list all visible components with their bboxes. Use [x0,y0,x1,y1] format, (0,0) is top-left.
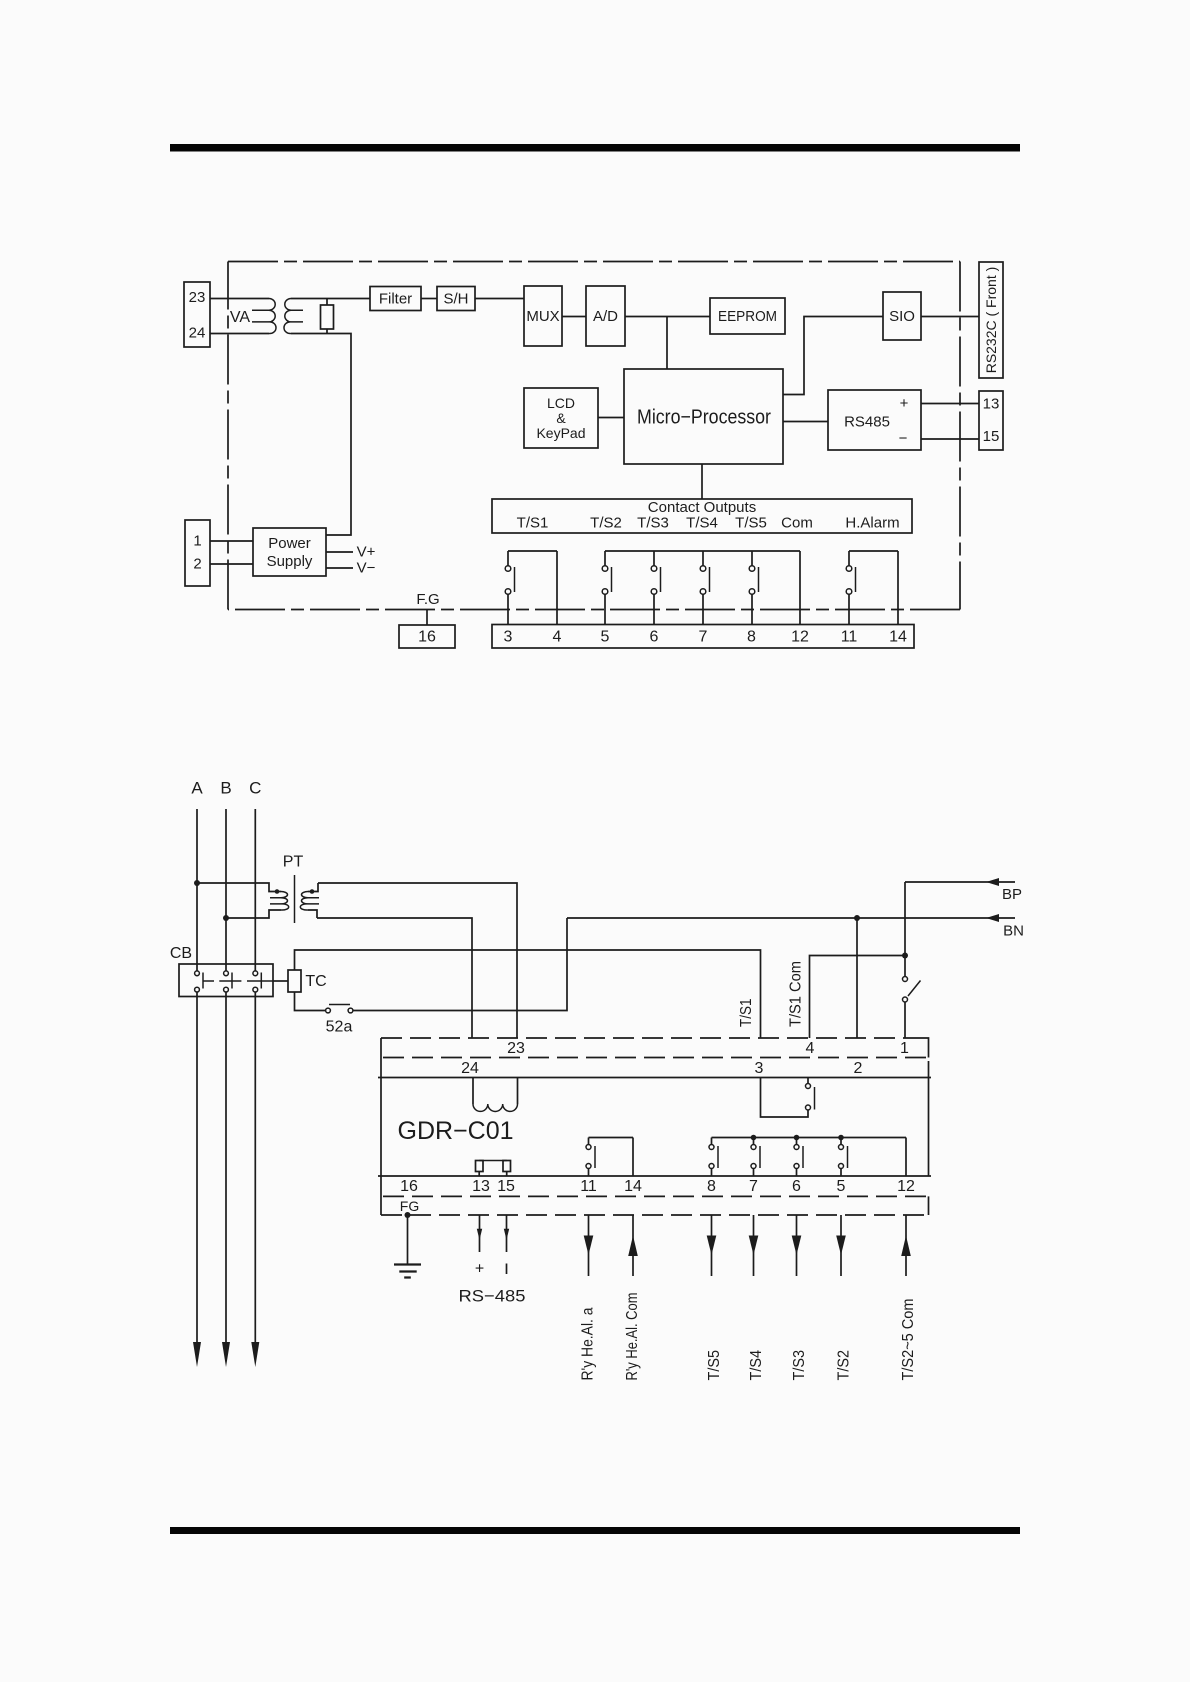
wire S/H to MUX [475,298,524,300]
svg-text:BP: BP [1002,886,1022,903]
wire TC top to terminal 3 (T/S1) [295,950,761,1038]
transformer VA primary winding [269,299,276,334]
svg-text:4: 4 [553,629,562,646]
terminal pin 16 [399,625,455,648]
GDR-C01 box right edge [928,1061,930,1215]
internal T/S5 contact [709,1138,718,1177]
phase line B [222,809,230,1367]
svg-text:SIO: SIO [889,308,915,325]
svg-text:T/S3: T/S3 [637,515,669,532]
GDR-C01 box second dashed line [383,1057,929,1059]
auxiliary contact 52a [326,1005,353,1036]
svg-text:A: A [191,779,203,798]
lead pin 5 T/S2 [836,1215,853,1381]
wire TC bottom to 52a [295,992,326,1011]
svg-text:3: 3 [755,1060,764,1077]
wire pin23 to VA primary [210,298,269,300]
svg-text:7: 7 [749,1178,758,1195]
internal T/S1 output contact [761,1078,815,1118]
GDR-C01 box lower solid line [378,1175,931,1177]
svg-text:8: 8 [707,1178,716,1195]
wire BN to terminal 2 [856,918,858,1038]
wire VA secondary bottom down to power supply [291,334,351,536]
GDR-C01 box upper solid line [378,1077,931,1079]
relay T/S5 contact [749,551,758,625]
svg-text:14: 14 [624,1178,642,1195]
wire RS485 plus to pin13 [921,403,979,405]
svg-text:VA: VA [230,309,250,326]
svg-text:RS−485: RS−485 [459,1287,526,1306]
RS485 plus lead pin 13 [475,1215,484,1278]
internal T/S2..T/S5 relay common bar [712,1138,907,1177]
Micro-Processor block [624,369,783,464]
wire PT secondary top to terminal 23 [318,883,517,1038]
svg-text:2: 2 [193,556,201,573]
RS485 block [828,390,921,450]
burden resistor [321,299,334,334]
breaker CB pole C [253,971,261,992]
svg-text:V−: V− [357,560,376,577]
lead pin 6 T/S3 [791,1215,808,1381]
internal H.Alarm relay contact [586,1138,633,1177]
svg-text:+: + [900,395,909,412]
enclosure dashed border left edge [227,262,229,610]
control switch on BP feed [903,882,921,1038]
terminal block pins 13/15 [979,391,1003,450]
svg-text:H.Alarm: H.Alarm [845,515,899,532]
svg-text:BN: BN [1003,923,1024,940]
V+ output stub [326,544,376,561]
svg-text:T/S4: T/S4 [748,1350,765,1381]
svg-text:13: 13 [983,396,1000,413]
svg-text:Power: Power [268,535,311,552]
breaker CB box [179,964,273,997]
GDR-C01 box outer dashed top edge [381,1037,918,1039]
wire Micro-Processor to RS485 [783,421,828,423]
svg-text:2: 2 [854,1060,863,1077]
internal VA input winding [473,1078,518,1112]
breaker CB crossbar [203,980,273,982]
svg-text:Contact Outputs: Contact Outputs [648,499,756,516]
GDR-C01 box top right corner [918,1038,929,1058]
bottom page rule [170,1527,1020,1534]
junction BN to terminal 2 [854,915,860,921]
S/H block [437,287,475,311]
wire F.G to pin16 [426,610,428,626]
wire T/S1 Com terminal 4 [810,956,906,1039]
svg-text:11: 11 [580,1178,597,1195]
svg-text:Micro−Processor: Micro−Processor [637,407,771,429]
GDR-C01 box lower dashed line [383,1195,929,1197]
svg-text:16: 16 [418,629,436,646]
wire CB to TC [273,980,288,982]
svg-text:T/S2~5 Com: T/S2~5 Com [900,1299,917,1381]
svg-text:A/D: A/D [593,308,618,325]
svg-text:7: 7 [699,629,708,646]
V- output stub [326,560,376,577]
svg-text:F.G: F.G [416,591,439,608]
junction T/S3 bar [794,1135,800,1141]
relay T/S2 contact [602,551,611,625]
relay group T/S2..T/S5 common bar [605,551,800,625]
relay T/S4 contact [700,551,709,625]
top page rule [170,144,1020,152]
svg-text:24: 24 [189,325,206,342]
svg-text:15: 15 [983,428,1000,445]
svg-text:13: 13 [472,1178,490,1195]
svg-text:6: 6 [792,1178,801,1195]
junction phase A to PT [194,880,200,886]
terminal block pins 1/2 [185,520,210,586]
wire PT secondary bottom to terminal 24 [317,918,472,1038]
svg-text:8: 8 [747,629,756,646]
svg-text:T/S3: T/S3 [791,1350,808,1381]
enclosure dashed border right edge [959,262,961,610]
breaker CB pole A [195,971,203,992]
junction T/S2 bar [838,1135,844,1141]
RS232C front connector [979,262,1003,378]
internal T/S2 contact [839,1138,848,1177]
lead pin 12 T/S2~5 Com [900,1215,917,1381]
svg-text:R'y He.Al. Com: R'y He.Al. Com [624,1293,641,1381]
RS-485 terminating resistors pins 13/15 [476,1161,511,1177]
svg-text:15: 15 [497,1178,515,1195]
phase line A [193,809,201,1367]
svg-text:T/S1: T/S1 [738,998,755,1027]
Filter block [370,287,421,311]
svg-text:C: C [249,779,261,798]
wire MUX to A/D [562,316,586,318]
svg-text:EEPROM: EEPROM [718,308,777,325]
ground symbol [394,1215,421,1278]
svg-text:S/H: S/H [443,291,468,308]
svg-text:1: 1 [900,1040,909,1057]
enclosure dashed border bottom edge [228,609,960,611]
svg-text:1: 1 [193,533,201,550]
svg-text:52a: 52a [326,1019,353,1036]
svg-text:T/S2: T/S2 [836,1350,853,1381]
svg-text:14: 14 [889,629,907,646]
svg-text:GDR−C01: GDR−C01 [398,1117,514,1145]
internal T/S3 contact [794,1138,803,1177]
svg-text:LCD: LCD [547,395,575,411]
svg-text:12: 12 [897,1178,915,1195]
svg-text:16: 16 [400,1178,418,1195]
svg-text:Supply: Supply [267,553,313,570]
svg-text:6: 6 [650,629,659,646]
svg-text:T/S4: T/S4 [686,515,718,532]
wire Micro-Processor to Contact Outputs [701,464,703,499]
svg-text:T/S1: T/S1 [517,515,549,532]
svg-text:4: 4 [806,1040,815,1057]
svg-text:T/S5: T/S5 [735,515,767,532]
GDR-C01 box left edge [380,1038,382,1215]
svg-text:V+: V+ [357,544,376,561]
lead pin 14 R'y He.Al. Com [624,1215,641,1381]
svg-text:Filter: Filter [379,291,412,308]
svg-text:CB: CB [170,945,192,962]
svg-text:MUX: MUX [526,308,559,325]
wire VA secondary top to Filter [291,298,370,300]
svg-text:−: − [899,430,908,447]
internal T/S4 contact [751,1138,760,1177]
svg-text:5: 5 [837,1178,846,1195]
svg-text:T/S1 Com: T/S1 Com [788,961,805,1027]
relay T/S3 contact [651,551,660,625]
svg-text:B: B [220,779,231,798]
transformer PT core bar [294,875,296,923]
junction switch to T/S1 Com [902,953,908,959]
svg-text:RS232C ( Front ): RS232C ( Front ) [983,267,999,374]
relay H.Alarm contact [846,551,898,625]
transformer VA secondary winding [284,299,291,334]
svg-text:T/S2: T/S2 [590,515,622,532]
svg-text:11: 11 [841,629,858,646]
breaker CB pole B [224,971,232,992]
wire 52a to BN line [353,918,567,1011]
phase line C [251,809,259,1367]
transformer PT secondary winding [300,883,319,918]
wire LCD to Micro-Processor [598,417,624,419]
svg-text:Com: Com [781,515,813,532]
svg-text:23: 23 [189,289,206,306]
BP line with arrow [905,878,1022,903]
svg-text:RS485: RS485 [844,414,890,431]
wire pin2 to power supply [210,563,253,565]
svg-text:+: + [475,1261,484,1278]
wire pin1 to power supply [210,540,253,542]
svg-text:PT: PT [283,854,304,871]
relay T/S1 contact [505,551,557,625]
output terminal strip [492,625,914,649]
svg-text:&: & [556,410,566,426]
wire RS485 minus to pin15 [921,438,979,440]
svg-text:KeyPad: KeyPad [536,425,585,441]
svg-text:24: 24 [461,1060,479,1077]
svg-text:FG: FG [400,1198,419,1214]
wire Filter to S/H [421,298,437,300]
SIO block [883,292,921,340]
svg-text:23: 23 [507,1040,525,1057]
enclosure dashed border top edge [228,261,960,263]
svg-text:3: 3 [504,629,513,646]
MUX block [524,286,562,346]
wire Micro-Processor to SIO [783,317,883,395]
EEPROM block [710,298,785,334]
wire SIO to RS232C connector [921,316,979,318]
svg-text:5: 5 [601,629,610,646]
svg-text:T/S5: T/S5 [706,1350,723,1381]
BN line with arrow [567,914,1024,940]
svg-text:12: 12 [791,629,809,646]
trip coil TC box [288,970,327,992]
junction FG to ground [405,1212,411,1218]
Power Supply block [253,528,326,576]
svg-text:TC: TC [305,973,326,990]
LCD and KeyPad block [524,388,598,448]
lead pin 7 T/S4 [748,1215,765,1381]
junction phase B to PT [223,915,229,921]
A/D block [586,286,625,346]
GDR-C01 box bottom dashed edge [381,1214,929,1216]
junction T/S4 bar [751,1135,757,1141]
RS485 minus lead pin 15 [504,1215,509,1274]
Contact Outputs header box [492,499,912,533]
transformer PT primary winding [197,883,289,918]
wire A/D to EEPROM with tap to Micro-Processor [625,317,710,370]
lead pin 8 T/S5 [706,1215,723,1381]
lead pin 11 R'y He.Al. a [580,1215,597,1381]
terminal block pins 23/24 [184,282,210,347]
svg-text:R'y He.Al. a: R'y He.Al. a [580,1307,597,1380]
wire pin24 to VA primary [210,333,269,335]
